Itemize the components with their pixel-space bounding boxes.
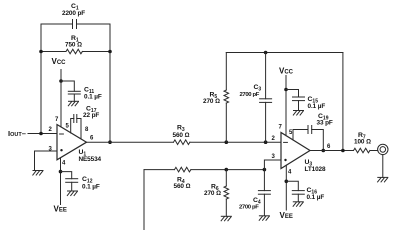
wire U1 output to R3 [87, 141, 174, 143]
wire IOUT- input to U1 pin2 [28, 133, 57, 135]
junction C4 top [263, 168, 267, 172]
wire R4 to C4 node [191, 169, 265, 171]
ground for C12 [67, 191, 77, 196]
op-amp U1 [57, 125, 87, 160]
svg-text:2: 2 [272, 136, 276, 142]
svg-text:7: 7 [55, 117, 59, 123]
svg-text:270 Ω: 270 Ω [204, 190, 221, 197]
svg-text:4: 4 [288, 170, 292, 176]
capacitor C12 [66, 179, 78, 191]
svg-text:0.1 µF: 0.1 µF [84, 94, 102, 101]
svg-text:5: 5 [66, 124, 70, 130]
svg-text:270 Ω: 270 Ω [203, 98, 220, 105]
wire U3 pin5 [293, 130, 308, 141]
wire U3 pin4 to VEE [285, 165, 287, 210]
wire lower row to R4 [144, 169, 175, 171]
svg-text:2200 pF: 2200 pF [62, 10, 85, 17]
wire U3 output [310, 150, 354, 152]
wire U1 pin5 [71, 119, 74, 134]
capacitor C11 [68, 91, 80, 101]
svg-text:VCC: VCC [279, 66, 294, 75]
svg-text:5: 5 [289, 130, 293, 136]
resistor R5 [224, 53, 229, 143]
junction R6 top [225, 168, 229, 172]
wire C4 node to U3 pin3 [264, 160, 281, 170]
junction VCC U3 [284, 88, 288, 92]
resistor R3 [174, 140, 190, 145]
capacitor C1 [73, 20, 77, 29]
junction U1 pin4 [59, 170, 63, 174]
wire VCC to U3 pin7 [285, 76, 287, 136]
wire C1 top row [41, 23, 73, 25]
capacitor C15 [293, 97, 305, 111]
svg-text:7: 7 [279, 125, 283, 131]
ground for C4 [259, 216, 269, 221]
svg-text:2700 pF: 2700 pF [240, 92, 260, 98]
svg-text:750 Ω: 750 Ω [65, 42, 82, 49]
wire R7 to connector [370, 150, 378, 152]
wire VCC to U1 pin7 [60, 70, 62, 128]
capacitor C16 [292, 191, 304, 202]
junction at R1 right [108, 50, 112, 54]
junction U1 output node [108, 140, 112, 144]
svg-text:2: 2 [49, 127, 53, 133]
junction C19 output [322, 149, 326, 153]
svg-text:22 pF: 22 pF [83, 112, 99, 119]
ground for U1 pin3 [33, 171, 43, 176]
junction C3 bottom [264, 140, 268, 144]
wire R1 row right [82, 51, 110, 53]
svg-text:C3: C3 [254, 84, 262, 93]
svg-text:33 pF: 33 pF [317, 119, 333, 126]
svg-text:560 Ω: 560 Ω [173, 132, 190, 139]
capacitor C19 [308, 126, 312, 134]
capacitor C3 [260, 53, 272, 143]
svg-text:6: 6 [327, 144, 331, 150]
junction R5 bottom [225, 140, 229, 144]
svg-text:IOUT–: IOUT– [8, 129, 26, 138]
wire feedback right vertical [342, 53, 344, 151]
junction VCC U1 [59, 79, 63, 83]
svg-text:VCC: VCC [52, 57, 67, 66]
svg-text:NE5534: NE5534 [79, 156, 102, 163]
svg-text:4: 4 [62, 161, 66, 167]
svg-text:3: 3 [49, 147, 53, 153]
svg-text:2700 pF: 2700 pF [239, 205, 259, 211]
svg-text:3: 3 [272, 154, 276, 160]
ground for connector [378, 177, 388, 182]
wire U1 pin3 [35, 151, 58, 171]
junction at R1 left [39, 50, 43, 54]
junction feedback output [341, 149, 345, 153]
wire left feedback vertical [40, 24, 42, 134]
ground for C15 [293, 111, 303, 116]
output connector J1 [378, 144, 388, 154]
wire connector to ground [382, 155, 384, 178]
junction IOUT node [39, 132, 43, 136]
junction U3 pin4 [285, 180, 289, 184]
svg-text:0.1 µF: 0.1 µF [82, 184, 100, 191]
wire C15 branch [286, 90, 299, 98]
junction C3 top [264, 51, 268, 55]
wire C11 branch [61, 81, 74, 91]
svg-text:0.1 µF: 0.1 µF [307, 194, 325, 201]
wire U1 pin4 to VEE [60, 158, 62, 205]
svg-text:8: 8 [85, 127, 89, 133]
svg-text:0.1 µF: 0.1 µF [308, 103, 326, 110]
svg-text:VEE: VEE [280, 211, 293, 220]
capacitor C17 [74, 115, 77, 123]
wire feedback top row [226, 52, 343, 54]
ground for R6 [221, 216, 231, 221]
wire C12 branch [61, 172, 72, 179]
svg-text:6: 6 [90, 135, 94, 141]
ground for C11 [68, 101, 78, 106]
svg-text:VEE: VEE [54, 205, 67, 214]
svg-text:LT1028: LT1028 [305, 166, 326, 173]
wire lower input vertical [143, 170, 145, 230]
wire R3 to U3 pin2 [190, 141, 281, 143]
wire C19 to output [312, 130, 324, 151]
wire right feedback vertical [109, 24, 111, 142]
capacitor C4 [258, 170, 270, 216]
op-amp U3 [281, 133, 310, 169]
ground for C16 [293, 202, 303, 207]
wire U1 pin8 [77, 119, 81, 140]
resistor R7 [354, 148, 370, 153]
svg-text:100 Ω: 100 Ω [354, 138, 371, 145]
resistor R4 [175, 167, 191, 172]
wire R1 row left [41, 51, 66, 53]
svg-text:560 Ω: 560 Ω [174, 183, 191, 190]
resistor R1 [66, 49, 82, 54]
resistor R6 [224, 170, 229, 217]
wire C16 branch [286, 181, 298, 190]
